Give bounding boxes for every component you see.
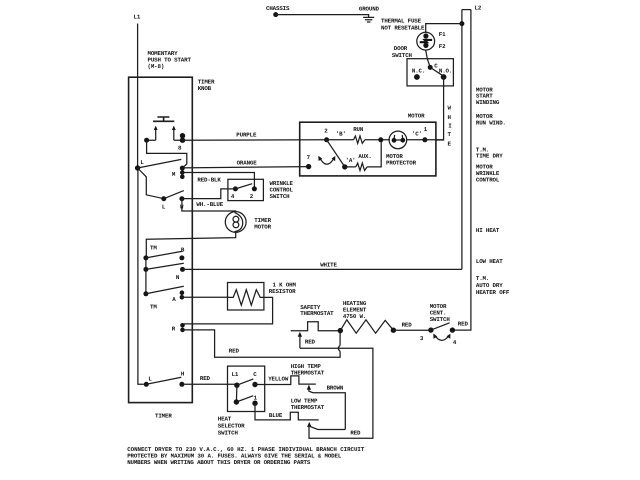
svg-text:WH.-BLUE: WH.-BLUE [196, 201, 223, 208]
motor cent switch contact 4 [450, 327, 455, 332]
motor arc arrow [319, 157, 334, 164]
aux winding coil [356, 163, 367, 170]
motor contact 7 [306, 164, 311, 169]
wire L2 to thermal fuse [426, 24, 462, 33]
motor box [300, 122, 436, 176]
svg-text:HEAT: HEAT [218, 416, 232, 423]
svg-text:THERMOSTAT: THERMOSTAT [291, 370, 325, 377]
blade TM to N [146, 263, 184, 269]
heat selector contact L1 [234, 383, 239, 388]
contact dots A [180, 290, 185, 295]
wire W contact to timer motor [182, 199, 236, 212]
wire red-blk M to wrinkle switch pin 2 [182, 173, 254, 187]
node junction dot thermal fuse to L2 [459, 21, 464, 26]
wire arrow bases [147, 139, 183, 141]
push-to-start plunger [153, 117, 174, 121]
svg-text:THERMOSTAT: THERMOSTAT [300, 310, 334, 317]
svg-text:'A': 'A' [346, 157, 356, 164]
svg-text:WINDING: WINDING [476, 99, 500, 106]
heat selector contact 1 [252, 401, 257, 406]
wire element to motor cent switch [393, 329, 431, 331]
wire yellow C to high temp thermostat [255, 376, 316, 385]
wire C to white [425, 139, 444, 141]
motor contact C/1 [422, 137, 427, 142]
node run/aux junction [378, 137, 383, 142]
svg-text:TIMER: TIMER [155, 413, 172, 420]
wrinkle control switch box [228, 179, 264, 200]
wire L1 branch to bottom L-H switch [138, 168, 144, 384]
contact L of timer line switch [135, 165, 140, 170]
svg-text:L1: L1 [134, 14, 141, 21]
svg-text:CONTROL: CONTROL [476, 176, 500, 183]
push-to-start arrow left [155, 128, 157, 141]
heat selector blade upper [237, 379, 253, 385]
contact TM-B left [143, 255, 148, 260]
low temp thermostat arrow [307, 422, 311, 427]
wire L1 contact down [235, 385, 238, 402]
svg-text:MOTOR: MOTOR [408, 113, 425, 120]
contact W of L-W switch [179, 196, 184, 201]
heat selector blade lower [236, 396, 253, 402]
node heating element junction [338, 328, 343, 333]
heating element zigzag [340, 320, 393, 333]
heat selector contact C [252, 382, 257, 387]
wrinkle switch contact 4 [233, 186, 238, 191]
contact H [179, 382, 184, 387]
run winding coil [354, 136, 365, 143]
svg-text:(M-8): (M-8) [148, 63, 165, 70]
svg-text:SWITCH: SWITCH [392, 52, 413, 59]
blade of L-W switch [164, 191, 184, 199]
contact N [180, 267, 185, 272]
wire R to heating element junction [183, 330, 341, 357]
motor cent switch arc arrow [434, 335, 449, 340]
svg-text:DOOR: DOOR [394, 45, 408, 52]
blade L-H [146, 377, 181, 384]
svg-text:RED: RED [305, 338, 316, 345]
svg-text:SWITCH: SWITCH [430, 316, 451, 323]
heat selector switch box [228, 366, 265, 411]
svg-text:4750 W.: 4750 W. [343, 313, 366, 320]
wire white N to L2 left rail [183, 268, 462, 270]
svg-text:THERMOSTAT: THERMOSTAT [291, 404, 325, 411]
svg-text:BROWN: BROWN [327, 385, 344, 392]
svg-text:THERMAL FUSE: THERMAL FUSE [381, 17, 422, 24]
svg-text:F2: F2 [439, 43, 446, 50]
wire A to resistor [182, 296, 229, 298]
wire L down-branch to L-W switch [138, 168, 164, 199]
node chassis terminal dot [273, 12, 278, 17]
wire fuse to door switch [426, 50, 431, 67]
svg-text:KNOB: KNOB [198, 85, 212, 92]
wire blue 1 to low temp thermostat [255, 403, 319, 420]
wire protector to C [406, 139, 425, 141]
wire white: door switch N.O. down to motor [436, 79, 444, 140]
safety thermostat symbol [291, 322, 341, 331]
thermal fuse F1/F2 circle [417, 32, 435, 50]
node element right dot [391, 328, 396, 333]
svg-text:TIME DRY: TIME DRY [476, 153, 503, 160]
svg-text:WHITE: WHITE [320, 261, 337, 268]
heat selector lower-left contact [234, 399, 239, 404]
timer motor coil [233, 216, 239, 222]
wire L2 left rail [461, 10, 463, 270]
svg-text:'C': 'C' [412, 131, 422, 138]
svg-text:ORANGE: ORANGE [237, 160, 258, 167]
svg-text:RUN: RUN [353, 126, 364, 133]
svg-text:'B': 'B' [336, 131, 346, 138]
wire low temp out diagonal to brown junction [309, 426, 345, 429]
blade L to push contact [138, 159, 182, 168]
svg-text:RED: RED [458, 320, 469, 327]
svg-text:L1: L1 [232, 371, 239, 378]
svg-text:CHASSIS: CHASSIS [266, 5, 290, 12]
door switch contact C [428, 65, 433, 70]
wire aux branch [345, 140, 381, 167]
svg-text:RED: RED [229, 347, 240, 354]
svg-text:SWITCH: SWITCH [218, 430, 239, 437]
svg-text:LOW HEAT: LOW HEAT [476, 258, 503, 265]
motor blade 2 to A [327, 140, 345, 167]
svg-text:RED-BLK: RED-BLK [197, 176, 221, 183]
door switch box [407, 59, 453, 86]
svg-text:MOTOR: MOTOR [254, 224, 271, 231]
svg-text:RED: RED [402, 322, 413, 329]
motor protector contacts [392, 138, 397, 143]
high temp thermostat arrow [307, 385, 311, 390]
svg-text:SELECTOR: SELECTOR [218, 423, 245, 430]
svg-text:TM: TM [150, 304, 157, 311]
wire red collector loop to safety thermostat [300, 348, 373, 438]
svg-text:NOT RESETABLE: NOT RESETABLE [381, 24, 425, 31]
svg-text:HEATER OFF: HEATER OFF [476, 289, 510, 296]
wire resistor to R contact [184, 297, 273, 324]
wire crossover jog [338, 345, 340, 351]
wire wrinkle pin 4 to W contact [182, 189, 236, 199]
svg-text:AUX.: AUX. [358, 153, 371, 160]
wire H to heat selector [182, 383, 237, 386]
motor protector circle [389, 131, 407, 149]
resistor box [228, 283, 264, 311]
door switch contact N.O. [441, 74, 447, 80]
motor contact 2/B [324, 137, 329, 142]
wire L2 right rail [452, 10, 471, 331]
wire TM chain vertical [145, 258, 147, 294]
svg-text:N.C.: N.C. [412, 67, 425, 74]
svg-text:NUMBERS WHEN WRITING ABOUT THI: NUMBERS WHEN WRITING ABOUT THIS DRYER OR… [127, 459, 311, 466]
contact dots 8 of push switch [180, 133, 185, 138]
svg-text:F1: F1 [439, 31, 446, 38]
wire purple [183, 139, 327, 141]
motor contact A [342, 164, 347, 169]
wire chassis to ground [276, 15, 369, 18]
svg-text:RED: RED [200, 375, 211, 382]
motor cent switch contact 3 [428, 327, 433, 332]
safety thermostat arrow [298, 332, 302, 337]
contact L of L-H switch [144, 382, 149, 387]
svg-text:PURPLE: PURPLE [236, 131, 257, 138]
wire L1 vertical drop [137, 24, 139, 167]
wire brown high temp out [309, 389, 345, 430]
wire push left contact down and over [147, 140, 187, 168]
timer motor circle [225, 212, 246, 233]
ground symbol [363, 17, 374, 22]
svg-text:RED: RED [350, 430, 361, 437]
svg-text:BLUE: BLUE [269, 412, 283, 419]
contact TM-A left [143, 291, 148, 296]
timer box [129, 77, 193, 402]
wire L2 top jumper [462, 9, 471, 11]
svg-text:SWITCH: SWITCH [270, 193, 291, 200]
wrinkle switch blade [235, 184, 252, 189]
blade TM to A [146, 286, 184, 294]
svg-text:RUN WIND.: RUN WIND. [476, 120, 506, 127]
svg-text:N.O.: N.O. [439, 67, 452, 74]
svg-text:L2: L2 [475, 5, 482, 12]
door switch blade C to N.O. [430, 67, 443, 76]
wire run branch [327, 139, 390, 141]
motor cent switch blade [431, 323, 450, 330]
svg-text:HI HEAT: HI HEAT [476, 227, 500, 234]
contact TM-N left [143, 267, 148, 272]
contact B [179, 255, 184, 260]
blade TM to B [146, 251, 183, 258]
contact dots R [180, 323, 185, 328]
wire orange [182, 167, 308, 168]
svg-text:GROUND: GROUND [359, 5, 380, 12]
svg-text:PROTECTOR: PROTECTOR [386, 160, 417, 167]
svg-text:YELLOW: YELLOW [268, 375, 289, 382]
wrinkle switch contact 2 [252, 186, 257, 191]
contact dot left of push switch [144, 138, 149, 143]
thermal fuse internals [423, 33, 428, 38]
door switch contact N.C. [414, 74, 420, 80]
svg-text:TM: TM [150, 245, 157, 252]
contact dots M stack [180, 166, 185, 171]
resistor zigzag [229, 290, 264, 306]
contact L of L-W switch [161, 196, 166, 201]
svg-text:RESISTOR: RESISTOR [269, 288, 296, 295]
push-to-start arrow right [173, 128, 175, 141]
wire timer motor to TM contacts [146, 232, 235, 258]
